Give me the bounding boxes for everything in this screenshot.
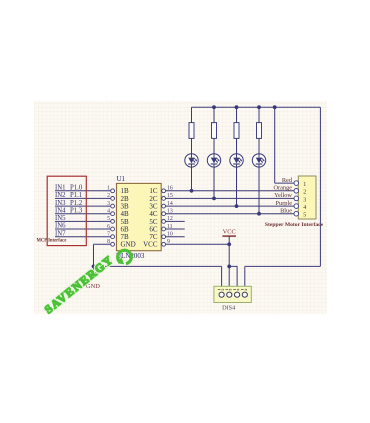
port IN1 / P1.0: [55, 185, 83, 192]
port IN4 / P1.3: [55, 207, 83, 214]
wire: IN5 to pin5: [55, 220, 111, 222]
wire: pin12 stub: [166, 220, 185, 222]
svg-text:Purple: Purple: [276, 200, 293, 207]
resistor R2: [212, 123, 217, 139]
wire: LED branch 1 upper (rail to resistor): [191, 107, 193, 123]
DIS4 tiny pin marks: [218, 289, 247, 291]
wire: pin8 GND horizontal: [94, 243, 111, 245]
port IN7: [55, 230, 66, 237]
U1 left pin numbers 1-8: [107, 186, 110, 246]
U1 right pin circles: [162, 189, 166, 246]
wire: branch 1 resistor to LED: [191, 138, 193, 153]
svg-text:IN2: IN2: [55, 192, 66, 199]
U1 right pin names: [143, 187, 158, 249]
svg-text:2: 2: [303, 190, 306, 196]
wire: DIS4 pin1 riser: [221, 266, 223, 292]
svg-text:1: 1: [107, 186, 110, 192]
wire: bottom horizontal from right vertical to DIS4 pin4 riser: [245, 265, 321, 267]
port IN3 / P1.2: [55, 200, 83, 207]
svg-text:15: 15: [167, 193, 173, 199]
svg-text:8: 8: [107, 239, 110, 245]
wire: pin15 to Yellow pin: [166, 197, 295, 199]
wire: pin13 to Blue pin: [166, 213, 295, 215]
J1 pin circles: [294, 181, 299, 216]
U1 right pin numbers 16-9: [167, 186, 173, 246]
wire: branch 3 resistor to LED: [236, 138, 238, 153]
wire: branch 1 LED down to pin16 net: [191, 167, 193, 191]
LED D2: [207, 154, 220, 167]
svg-text:Orange: Orange: [273, 185, 292, 192]
wire: VCC to DIS4 pin3 link: [229, 266, 237, 292]
J1 pin numbers 1-5: [303, 182, 306, 219]
svg-text:16: 16: [167, 186, 173, 192]
svg-text:P1.0: P1.0: [70, 185, 83, 192]
svg-text:3: 3: [107, 201, 110, 207]
wire: branch 4 resistor to LED: [258, 138, 260, 153]
VCC power symbol: [222, 235, 236, 237]
U1 left pin circles: [111, 189, 115, 246]
junction dots: [92, 105, 277, 268]
wire: pin9 to VCC: [166, 243, 230, 245]
svg-text:2: 2: [107, 193, 110, 199]
wire: IN4 to pin4: [55, 213, 111, 215]
svg-text:P1.2: P1.2: [70, 200, 83, 207]
wire: Red net horizontal to pin1: [275, 182, 294, 184]
DIS4 connector body: [214, 286, 251, 302]
resistor R3: [234, 123, 239, 139]
wire: DIS4 pin4 riser: [244, 266, 246, 292]
svg-text:3: 3: [303, 197, 306, 203]
svg-text:12: 12: [167, 216, 173, 222]
wire: branch 3 LED down to pin14 net: [236, 167, 238, 206]
svg-text:13: 13: [167, 209, 173, 215]
wire: pin16 to Orange pin: [166, 190, 295, 192]
wire: GND vertical drop: [93, 244, 95, 272]
svg-text:6: 6: [107, 224, 110, 230]
svg-text:U1: U1: [117, 175, 126, 183]
svg-text:IN7: IN7: [55, 230, 66, 237]
Stepper Motor Interface connector J1 body: [298, 176, 316, 219]
svg-text:5: 5: [107, 216, 110, 222]
svg-text:Yellow: Yellow: [274, 192, 292, 199]
resistor R4: [257, 123, 262, 139]
svg-text:5: 5: [303, 213, 306, 219]
svg-text:P1.3: P1.3: [70, 207, 83, 214]
svg-text:11: 11: [167, 224, 173, 230]
wire: LED branch 4 upper: [258, 107, 260, 123]
wire: branch 2 LED down to pin15 net: [213, 167, 215, 198]
port IN2 / P1.1: [55, 192, 82, 199]
wire: branch 4 LED down to pin13 net: [258, 167, 260, 214]
wire: Red net vertical from rail: [274, 107, 276, 183]
svg-text:IN6: IN6: [55, 223, 66, 230]
watermark swoosh logo: [118, 250, 132, 264]
wire: right-side vertical from rail down: [319, 107, 321, 266]
wire: pin11 stub: [166, 228, 185, 230]
svg-text:Stepper Motor Interface: Stepper Motor Interface: [265, 222, 324, 228]
svg-text:9: 9: [167, 239, 170, 245]
wire: branch 2 resistor to LED: [213, 138, 215, 153]
LED D1: [185, 154, 198, 167]
svg-text:10: 10: [167, 232, 173, 238]
wire: VCC vertical: [228, 236, 230, 292]
svg-text:IN4: IN4: [55, 207, 66, 214]
svg-text:VCC: VCC: [223, 229, 236, 236]
wire: IN1 to pin1: [55, 190, 111, 192]
IC U1 ULN2003 body: [117, 183, 162, 250]
wire: LED branch 2 upper: [213, 107, 215, 123]
svg-text:4: 4: [107, 209, 110, 215]
wire: IN7 to pin7: [55, 236, 111, 238]
grid paper background: [34, 101, 327, 314]
wire: IN3 to pin3: [55, 205, 111, 207]
DIS4 pin circles: [219, 292, 247, 297]
svg-text:Blue: Blue: [280, 207, 292, 214]
wire: IN6 to pin6: [55, 228, 111, 230]
svg-text:4: 4: [303, 205, 306, 211]
wire: pin14 to Purple pin: [166, 205, 295, 207]
svg-text:GND: GND: [121, 241, 136, 249]
svg-text:Red: Red: [282, 177, 293, 184]
port IN5: [55, 215, 66, 222]
resistor R1: [189, 123, 194, 139]
watermark SAVENERGY: [43, 254, 117, 317]
LED D4: [252, 154, 265, 167]
U1 left pin names: [121, 187, 136, 249]
LED D3: [230, 154, 243, 167]
svg-text:IN3: IN3: [55, 200, 66, 207]
MCP Interface port box: [47, 176, 86, 245]
wire: GND bottom horizontal to DIS4 pin1: [94, 265, 222, 267]
wire: LED branch 3 upper: [236, 107, 238, 123]
svg-text:1: 1: [303, 182, 306, 188]
wire: top LED supply rail: [192, 106, 321, 108]
svg-text:14: 14: [167, 201, 173, 207]
wire: pin10 stub: [166, 236, 185, 238]
port IN6: [55, 223, 66, 230]
ground symbol: [88, 273, 99, 278]
svg-text:7: 7: [107, 232, 110, 238]
svg-text:IN5: IN5: [55, 215, 66, 222]
svg-text:VCC: VCC: [143, 241, 158, 249]
wire: IN2 to pin2: [55, 197, 111, 199]
svg-text:MCP Interface: MCP Interface: [37, 238, 67, 243]
svg-text:IN1: IN1: [55, 185, 66, 192]
svg-text:P1.1: P1.1: [70, 192, 82, 199]
svg-text:DIS4: DIS4: [222, 305, 235, 312]
